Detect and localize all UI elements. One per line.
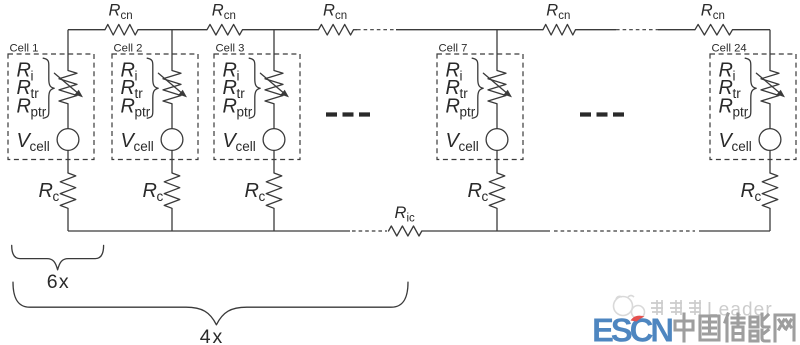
svg-text:c: c xyxy=(482,189,489,204)
svg-text:ptr: ptr xyxy=(460,104,476,119)
svg-text:c: c xyxy=(53,189,60,204)
svg-text:cn: cn xyxy=(121,10,133,22)
svg-text:Cell 7: Cell 7 xyxy=(439,42,468,54)
svg-text:R: R xyxy=(546,1,558,19)
svg-text:R: R xyxy=(741,180,755,202)
svg-text:R: R xyxy=(212,1,224,19)
svg-text:ptr: ptr xyxy=(237,104,253,119)
svg-text:6x: 6x xyxy=(47,271,70,293)
svg-text:ic: ic xyxy=(407,213,416,225)
svg-text:R: R xyxy=(39,180,53,202)
svg-text:cell: cell xyxy=(134,139,154,154)
svg-text:cell: cell xyxy=(30,139,50,154)
svg-text:cn: cn xyxy=(713,10,725,22)
svg-text:tr: tr xyxy=(237,86,246,101)
svg-text:cell: cell xyxy=(459,139,479,154)
svg-text:Cell 3: Cell 3 xyxy=(216,42,245,54)
svg-text:R: R xyxy=(223,95,237,117)
svg-text:R: R xyxy=(468,180,482,202)
svg-text:Cell 1: Cell 1 xyxy=(10,42,39,54)
svg-text:R: R xyxy=(17,95,31,117)
svg-text:Cell 24: Cell 24 xyxy=(712,42,747,54)
svg-text:c: c xyxy=(755,189,762,204)
svg-text:4x: 4x xyxy=(200,326,224,345)
svg-text:cell: cell xyxy=(732,139,752,154)
svg-text:R: R xyxy=(121,95,135,117)
svg-text:R: R xyxy=(143,180,157,202)
svg-text:c: c xyxy=(259,189,266,204)
svg-text:ptr: ptr xyxy=(135,104,151,119)
svg-text:R: R xyxy=(109,1,121,19)
svg-text:cn: cn xyxy=(558,10,570,22)
svg-text:R: R xyxy=(719,95,733,117)
svg-text:ptr: ptr xyxy=(733,104,749,119)
svg-text:c: c xyxy=(157,189,164,204)
svg-text:ESCN: ESCN xyxy=(592,311,672,345)
svg-text:R: R xyxy=(395,204,407,222)
svg-text:ptr: ptr xyxy=(31,104,47,119)
svg-text:cn: cn xyxy=(335,10,347,22)
svg-text:cell: cell xyxy=(236,139,256,154)
svg-text:tr: tr xyxy=(733,86,742,101)
svg-text:tr: tr xyxy=(460,86,469,101)
svg-text:R: R xyxy=(245,180,259,202)
svg-text:tr: tr xyxy=(135,86,144,101)
svg-text:R: R xyxy=(323,1,335,19)
svg-text:tr: tr xyxy=(31,86,40,101)
svg-text:Cell 2: Cell 2 xyxy=(114,42,143,54)
svg-text:R: R xyxy=(446,95,460,117)
svg-text:cn: cn xyxy=(224,10,236,22)
svg-text:R: R xyxy=(701,1,713,19)
